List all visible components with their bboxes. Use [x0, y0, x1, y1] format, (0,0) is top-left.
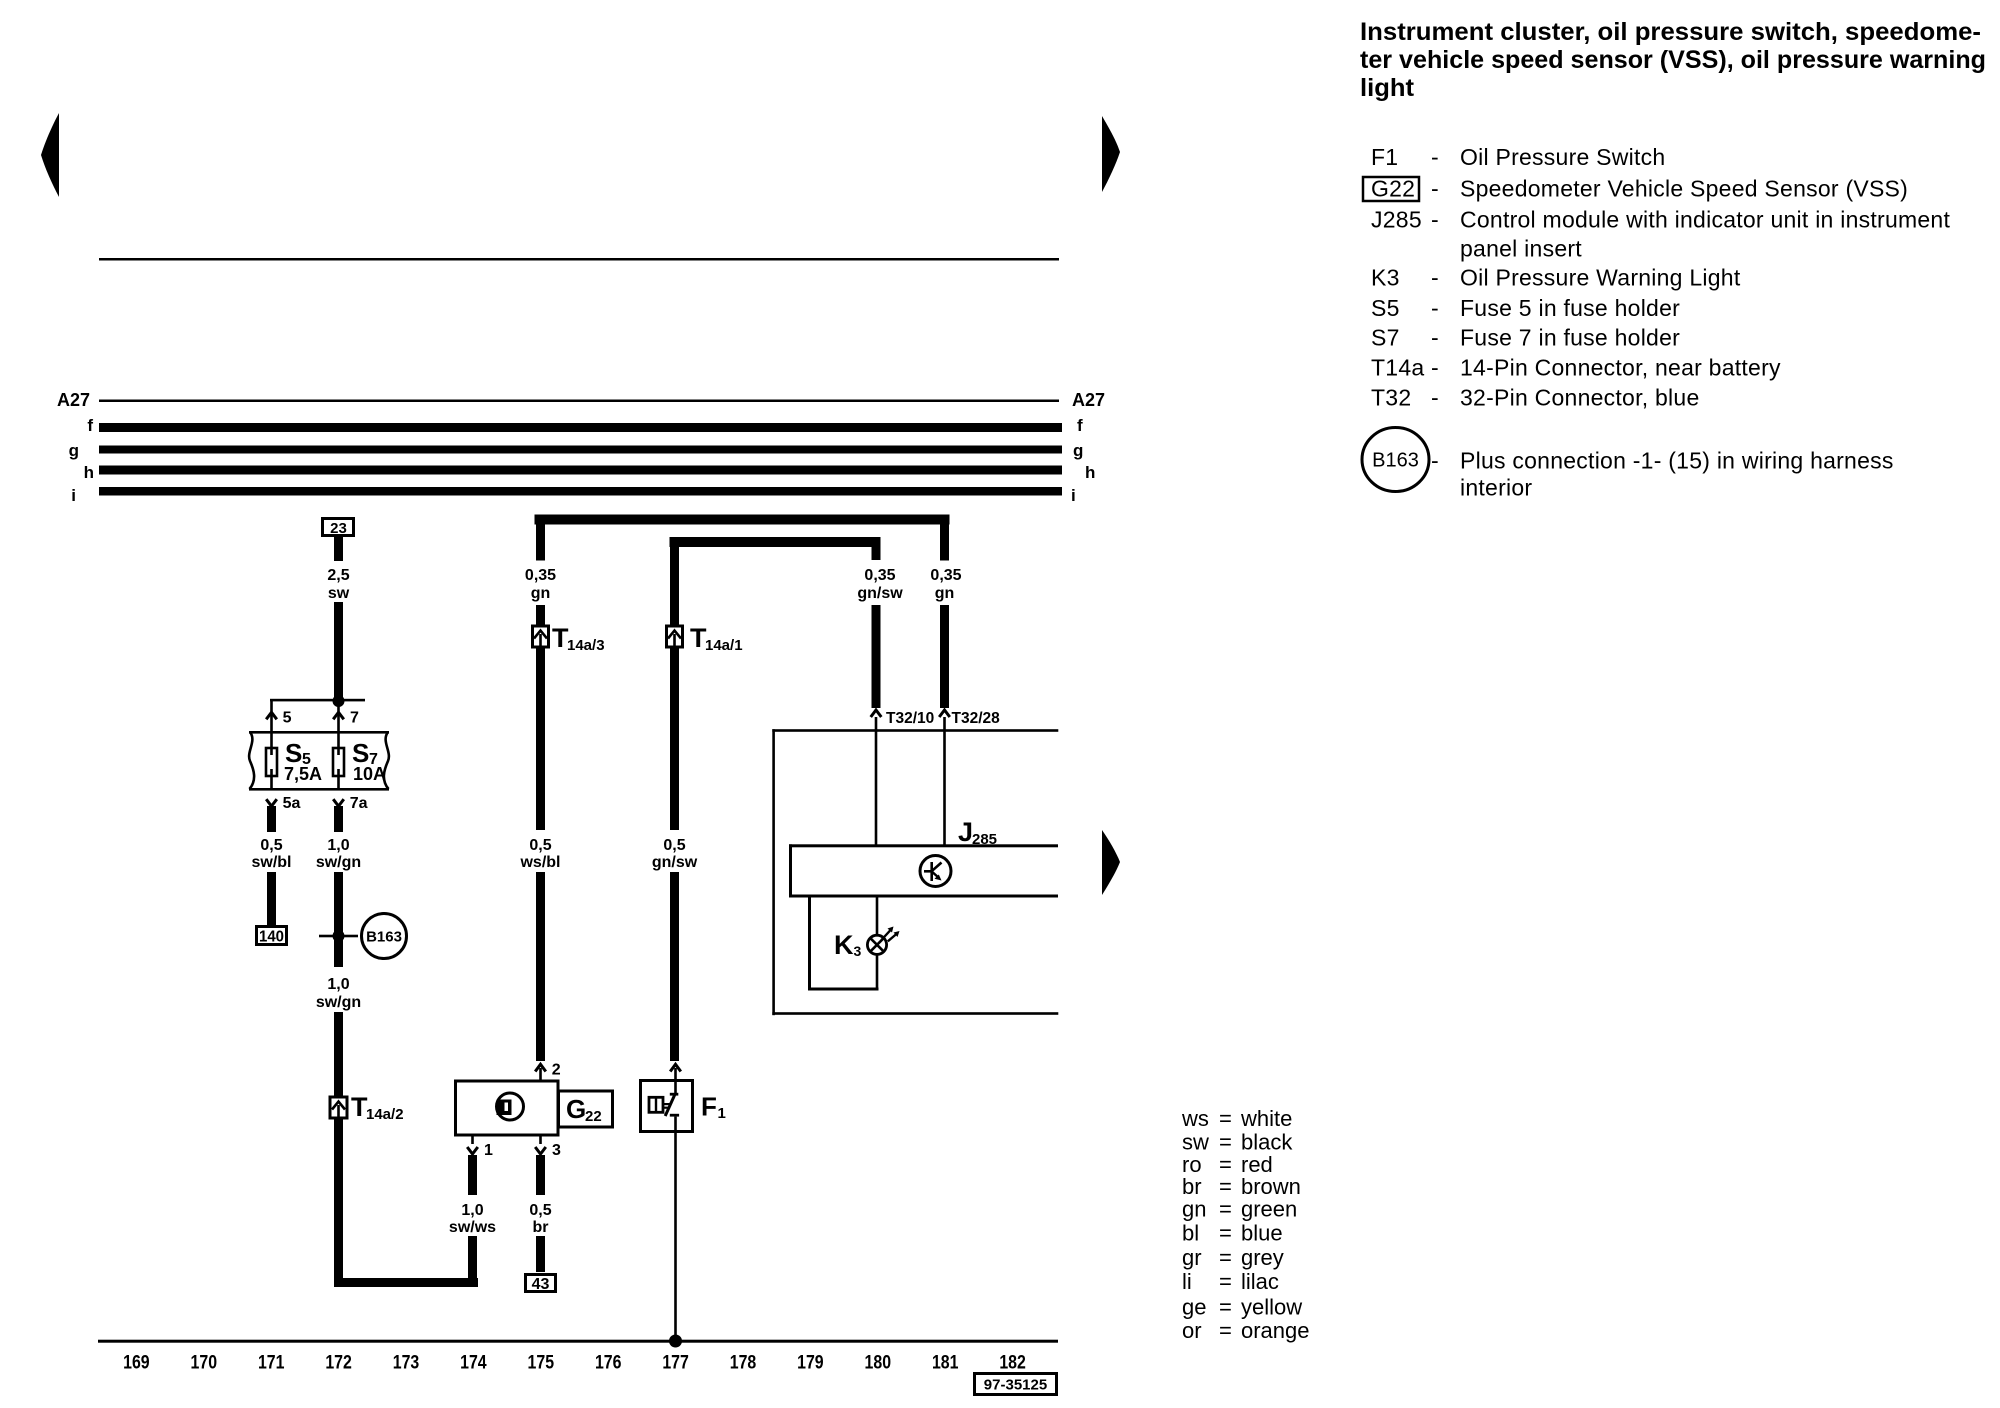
- wire 0,35 gn/sw drop to T32/10: [872, 547, 881, 560]
- svg-text:175: 175: [528, 1353, 555, 1374]
- wire colour legend: [1181, 1106, 1310, 1343]
- junction node on ground rail: [669, 1335, 682, 1348]
- svg-text:181: 181: [932, 1353, 959, 1374]
- wire 1,0 sw/gn mid: [334, 872, 343, 967]
- legend G22 box: [1363, 177, 1419, 201]
- svg-text:sw: sw: [328, 585, 350, 602]
- svg-text:10A: 10A: [353, 764, 386, 784]
- bus bar f: [99, 423, 1062, 432]
- svg-text:174: 174: [460, 1353, 487, 1374]
- label T14a/3: [552, 623, 605, 654]
- svg-text:Oil Pressure Warning Light: Oil Pressure Warning Light: [1460, 265, 1741, 291]
- svg-text:Fuse 5 in fuse holder: Fuse 5 in fuse holder: [1460, 295, 1680, 321]
- svg-text:180: 180: [865, 1353, 892, 1374]
- indicator symbol K in module: [920, 856, 951, 887]
- terminal box 43: [526, 1275, 556, 1294]
- pin arrow T32/10: [871, 710, 935, 727]
- svg-text:gr: gr: [1182, 1245, 1202, 1270]
- wire gn/sw drop from second bus: [670, 547, 679, 626]
- second bus wire (horizontal): [670, 537, 881, 547]
- svg-text:14-Pin Connector, near battery: 14-Pin Connector, near battery: [1460, 355, 1781, 381]
- terminal box 23: [323, 519, 354, 538]
- svg-text:97-35125: 97-35125: [984, 1377, 1047, 1394]
- svg-text:brown: brown: [1241, 1174, 1301, 1199]
- svg-text:177: 177: [662, 1353, 689, 1374]
- wire inside J285 from T32/10: [875, 717, 878, 845]
- wire 2,5 sw lower segment: [334, 602, 343, 701]
- svg-text:sw/gn: sw/gn: [316, 854, 361, 871]
- svg-text:176: 176: [595, 1353, 622, 1374]
- fuse holder box bottom edge: [249, 788, 389, 791]
- pin arrow 7: [333, 710, 359, 727]
- svg-text:3: 3: [552, 1142, 561, 1159]
- wire br lower: [536, 1236, 545, 1272]
- svg-text:32-Pin Connector, blue: 32-Pin Connector, blue: [1460, 385, 1700, 411]
- junction node at fuse feed: [333, 695, 345, 707]
- svg-text:T32/10: T32/10: [886, 710, 934, 727]
- svg-text:i: i: [1071, 486, 1076, 505]
- svg-text:ws: ws: [1181, 1106, 1209, 1131]
- svg-text:172: 172: [325, 1353, 352, 1374]
- svg-text:T32: T32: [1371, 385, 1411, 411]
- svg-text:0,35: 0,35: [525, 567, 556, 584]
- wire 0,35 gn drop (left): [536, 525, 545, 561]
- pin arrow T32/28: [939, 710, 1000, 727]
- svg-text:2: 2: [552, 1062, 561, 1079]
- svg-text:22: 22: [585, 1108, 602, 1125]
- wire gn/sw upper: [670, 647, 679, 830]
- wire branch line to fuses: [270, 699, 365, 702]
- svg-text:G22: G22: [1371, 176, 1415, 202]
- svg-text:F1: F1: [1371, 144, 1398, 170]
- label T14a/2: [351, 1092, 404, 1123]
- wire label 0,35 gn/sw: [857, 567, 903, 602]
- svg-text:=: =: [1219, 1295, 1232, 1320]
- top bus wire gn (horizontal): [535, 515, 950, 525]
- svg-text:li: li: [1182, 1269, 1192, 1294]
- G22 pin 3: [535, 1135, 561, 1159]
- wire label 0,5 br: [529, 1202, 551, 1236]
- svg-text:bl: bl: [1182, 1221, 1199, 1246]
- pin arrow into F1: [670, 1064, 681, 1081]
- svg-text:-: -: [1431, 265, 1439, 291]
- wire 0,35 gn drop to T32/28: [940, 525, 949, 561]
- F1 switch symbol: [649, 1081, 679, 1132]
- wire 0,5 sw/bl upper: [267, 806, 276, 832]
- svg-text:169: 169: [123, 1353, 150, 1374]
- svg-text:14a/3: 14a/3: [567, 637, 605, 654]
- svg-text:1: 1: [484, 1142, 493, 1159]
- separator line top: [99, 258, 1059, 261]
- bus bar i: [99, 487, 1062, 496]
- svg-text:J: J: [958, 817, 973, 847]
- svg-text:1,0: 1,0: [327, 837, 349, 854]
- ground rail: [98, 1340, 1058, 1343]
- wire sw/ws riser lower: [468, 1236, 477, 1287]
- svg-text:black: black: [1241, 1130, 1293, 1155]
- wire stub to pin 5: [270, 700, 273, 748]
- svg-text:171: 171: [258, 1353, 285, 1374]
- wire ws/bl lower: [536, 872, 545, 1061]
- title: [1360, 18, 1986, 102]
- svg-text:gn: gn: [935, 585, 955, 602]
- current track numbers: [123, 1353, 1026, 1374]
- label J285: [958, 817, 997, 848]
- svg-text:gn/sw: gn/sw: [857, 585, 903, 602]
- fuse S5 wire through: [270, 748, 273, 789]
- svg-text:Control module with indicator: Control module with indicator unit in in…: [1460, 207, 1950, 233]
- J285 control module bar: [789, 844, 1058, 897]
- bus bar h: [99, 466, 1062, 475]
- svg-text:=: =: [1219, 1106, 1232, 1131]
- svg-text:=: =: [1219, 1174, 1232, 1199]
- svg-text:2,5: 2,5: [327, 567, 349, 584]
- svg-text:7a: 7a: [350, 795, 368, 812]
- svg-text:=: =: [1219, 1130, 1232, 1155]
- svg-text:0,35: 0,35: [930, 567, 961, 584]
- warning lamp K3: [867, 927, 899, 955]
- svg-text:0,5: 0,5: [529, 837, 551, 854]
- svg-text:-: -: [1431, 325, 1439, 351]
- B163 tap line: [319, 935, 358, 938]
- wire 2,5 sw upper segment: [334, 537, 343, 561]
- wire label 0,35 gn right: [930, 567, 961, 602]
- bus labels right: [1071, 390, 1105, 505]
- svg-text:white: white: [1240, 1106, 1292, 1131]
- svg-text:h: h: [1085, 463, 1095, 482]
- connector T14a/1: [667, 626, 683, 647]
- svg-text:G: G: [566, 1094, 586, 1124]
- svg-text:170: 170: [191, 1353, 218, 1374]
- svg-text:179: 179: [797, 1353, 824, 1374]
- svg-text:or: or: [1182, 1318, 1202, 1343]
- wire 1,0 sw/gn upper: [334, 806, 343, 832]
- svg-text:7,5A: 7,5A: [284, 764, 322, 784]
- svg-text:gn: gn: [531, 585, 551, 602]
- svg-text:=: =: [1219, 1269, 1232, 1294]
- label S7 10A: [352, 738, 386, 784]
- diagram number box 97-35125: [975, 1374, 1057, 1395]
- svg-text:f: f: [1077, 416, 1083, 435]
- plus connection B163: [362, 914, 407, 959]
- wire label 0,35 gn: [525, 567, 556, 602]
- label K3: [834, 930, 862, 960]
- label S5 7,5A: [284, 738, 322, 784]
- fuse holder wavy right edge: [384, 732, 389, 789]
- svg-text:173: 173: [393, 1353, 420, 1374]
- svg-text:0,5: 0,5: [260, 837, 282, 854]
- K3 lamp loop left side: [808, 897, 879, 991]
- svg-text:K3: K3: [1371, 265, 1400, 291]
- wire 0,35 gn/sw lower: [872, 605, 881, 708]
- svg-text:sw/bl: sw/bl: [251, 854, 291, 871]
- svg-text:gn/sw: gn/sw: [652, 854, 698, 871]
- wire 0,5 sw/bl lower: [267, 872, 276, 925]
- svg-text:f: f: [87, 416, 93, 435]
- connector T14a/3: [533, 626, 549, 647]
- wire label 0,5 gn/sw: [652, 837, 698, 871]
- wire br upper: [536, 1155, 545, 1195]
- fuse holder wavy left edge: [249, 732, 254, 789]
- component legend: [1371, 144, 1950, 501]
- legend B163 circle: [1362, 428, 1429, 492]
- svg-text:h: h: [84, 463, 94, 482]
- svg-text:K: K: [834, 930, 854, 960]
- svg-text:Plus connection -1- (15) in wi: Plus connection -1- (15) in wiring harne…: [1460, 448, 1894, 474]
- svg-text:-: -: [1431, 355, 1439, 381]
- svg-text:-: -: [1431, 144, 1439, 170]
- svg-text:5a: 5a: [283, 795, 301, 812]
- wire stub to pin 7: [337, 701, 340, 748]
- svg-text:panel insert: panel insert: [1460, 236, 1582, 262]
- svg-text:sw: sw: [1182, 1130, 1209, 1155]
- svg-text:5: 5: [283, 710, 292, 727]
- wire label 1,0 sw/gn lower: [316, 976, 361, 1011]
- wire F1 to ground rail: [674, 1132, 677, 1342]
- page nav arrow left: [41, 113, 59, 197]
- svg-text:blue: blue: [1241, 1221, 1283, 1246]
- svg-text:i: i: [71, 486, 76, 505]
- J285 outer box: [772, 729, 1058, 1015]
- junction node B163: [333, 930, 345, 942]
- svg-text:Speedometer Vehicle Speed Sens: Speedometer Vehicle Speed Sensor (VSS): [1460, 176, 1908, 202]
- svg-text:S7: S7: [1371, 325, 1400, 351]
- svg-text:yellow: yellow: [1241, 1295, 1302, 1320]
- speed sensor G22 box: [456, 1081, 559, 1135]
- label T14a/1: [690, 623, 743, 654]
- svg-text:7: 7: [350, 710, 359, 727]
- wire 0,35 gn lower right: [940, 605, 949, 708]
- svg-text:=: =: [1219, 1221, 1232, 1246]
- label F1: [701, 1092, 726, 1123]
- wire sw/ws bottom elbow: [334, 1278, 478, 1287]
- bus bar g: [99, 446, 1062, 454]
- wire label 1,0 sw/ws: [449, 1202, 496, 1236]
- svg-text:orange: orange: [1241, 1318, 1310, 1343]
- svg-text:Instrument cluster, oil pressu: Instrument cluster, oil pressure switch,…: [1360, 18, 1981, 46]
- svg-text:14a/1: 14a/1: [705, 637, 743, 654]
- svg-text:F: F: [701, 1092, 717, 1122]
- svg-text:1,0: 1,0: [327, 976, 349, 993]
- wire label 0,5 sw/bl: [251, 837, 291, 871]
- fuse S5 symbol: [266, 748, 277, 776]
- wire 1,0 sw/gn to T14a/2: [334, 1012, 343, 1097]
- svg-text:Fuse 7 in fuse holder: Fuse 7 in fuse holder: [1460, 325, 1680, 351]
- svg-text:Oil Pressure Switch: Oil Pressure Switch: [1460, 144, 1665, 170]
- svg-text:0,5: 0,5: [663, 837, 685, 854]
- svg-text:0,5: 0,5: [529, 1202, 551, 1219]
- svg-text:A27: A27: [1072, 390, 1105, 410]
- bus labels left: [57, 390, 94, 505]
- svg-text:1,0: 1,0: [461, 1202, 483, 1219]
- svg-text:14a/2: 14a/2: [366, 1106, 404, 1123]
- svg-text:-: -: [1431, 448, 1439, 474]
- wire 0,35 gn to T14a/3: [536, 605, 545, 626]
- svg-text:br: br: [1182, 1174, 1202, 1199]
- svg-text:-: -: [1431, 176, 1439, 202]
- pin arrow 5a: [266, 795, 300, 812]
- svg-text:0,35: 0,35: [864, 567, 895, 584]
- wire label 0,5 ws/bl: [519, 837, 560, 871]
- terminal box 140: [257, 927, 287, 946]
- pin arrow 7a: [333, 795, 367, 812]
- svg-text:lilac: lilac: [1241, 1269, 1279, 1294]
- svg-text:=: =: [1219, 1197, 1232, 1222]
- svg-text:A27: A27: [57, 390, 90, 410]
- svg-text:182: 182: [999, 1353, 1026, 1374]
- wire label 1,0 sw/gn: [316, 837, 361, 871]
- svg-text:ws/bl: ws/bl: [519, 854, 560, 871]
- svg-text:g: g: [69, 441, 79, 460]
- svg-text:gn: gn: [1182, 1197, 1206, 1222]
- svg-text:1: 1: [718, 1105, 726, 1122]
- svg-text:interior: interior: [1460, 475, 1532, 501]
- wire inside J285 from T32/28: [943, 717, 946, 845]
- svg-text:ter vehicle speed sensor (VSS): ter vehicle speed sensor (VSS), oil pres…: [1360, 46, 1986, 74]
- wire ws/bl upper: [536, 647, 545, 830]
- wire sw/ws down from T14a/2: [334, 1118, 343, 1287]
- fuse S7 wire through: [337, 748, 340, 789]
- svg-text:T32/28: T32/28: [952, 710, 1001, 727]
- svg-text:green: green: [1241, 1197, 1297, 1222]
- G22 designation box: [559, 1091, 613, 1127]
- svg-text:-: -: [1431, 207, 1439, 233]
- svg-text:-: -: [1431, 295, 1439, 321]
- svg-text:B163: B163: [366, 929, 402, 946]
- oil pressure switch F1 box: [641, 1081, 693, 1132]
- bus A27 line: [99, 400, 1059, 403]
- svg-text:g: g: [1073, 441, 1083, 460]
- svg-text:br: br: [533, 1219, 549, 1236]
- svg-text:3: 3: [854, 943, 862, 959]
- pin arrow 5: [266, 710, 291, 727]
- svg-text:S5: S5: [1371, 295, 1400, 321]
- pin arrow 2 of G22: [535, 1062, 561, 1082]
- svg-text:grey: grey: [1241, 1245, 1284, 1270]
- G22 pin 1: [467, 1135, 493, 1159]
- svg-text:J285: J285: [1371, 207, 1422, 233]
- svg-text:B163: B163: [1372, 450, 1419, 472]
- svg-text:ge: ge: [1182, 1295, 1206, 1320]
- page nav arrow right mid: [1102, 830, 1120, 895]
- wire sw/ws riser upper: [468, 1155, 477, 1195]
- svg-text:140: 140: [259, 929, 284, 946]
- svg-text:-: -: [1431, 385, 1439, 411]
- page nav arrow right top: [1102, 116, 1120, 192]
- connector T14a/2: [330, 1097, 347, 1118]
- svg-text:T14a: T14a: [1371, 355, 1424, 381]
- svg-text:sw/gn: sw/gn: [316, 994, 361, 1011]
- wire gn/sw lower: [670, 872, 679, 1061]
- wire label 2,5 sw: [327, 567, 349, 602]
- svg-text:=: =: [1219, 1318, 1232, 1343]
- G22 sensor symbol: [497, 1093, 524, 1120]
- svg-text:light: light: [1360, 74, 1415, 102]
- svg-text:=: =: [1219, 1245, 1232, 1270]
- svg-text:178: 178: [730, 1353, 757, 1374]
- svg-text:sw/ws: sw/ws: [449, 1219, 496, 1236]
- fuse holder box top edge: [249, 731, 389, 734]
- fuse S7 symbol: [333, 748, 344, 776]
- svg-text:43: 43: [532, 1276, 550, 1293]
- svg-text:23: 23: [330, 520, 347, 537]
